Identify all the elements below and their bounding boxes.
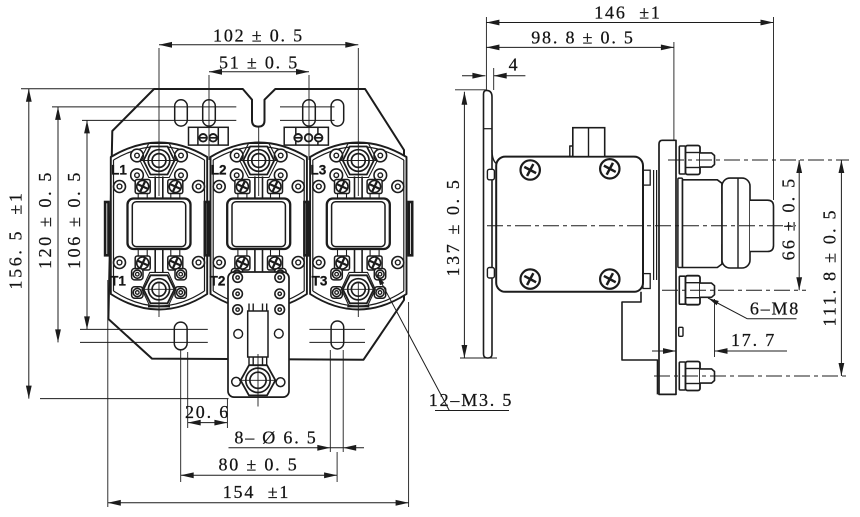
extension line y398.6 bracket bottom bbox=[40, 398, 229, 400]
top terminal block bbox=[573, 128, 605, 157]
top ext line left bbox=[455, 89, 486, 91]
bracket centre window bbox=[248, 311, 268, 357]
extension line y120.4 bbox=[82, 119, 236, 121]
front plate (side) bbox=[659, 140, 676, 394]
body right steps bbox=[643, 170, 650, 185]
pole module at x=358.3 bbox=[310, 143, 406, 310]
svg-text:106 ± 0. 5: 106 ± 0. 5 bbox=[64, 170, 84, 269]
bottom oval slot left bbox=[174, 322, 187, 350]
svg-text:T2: T2 bbox=[210, 274, 226, 289]
dim 8-dia6.5 bbox=[329, 350, 331, 452]
leader 12-M3.5 bbox=[377, 275, 449, 411]
bottom oval slot right bbox=[331, 321, 344, 349]
svg-text:156. 5 ±1: 156. 5 ±1 bbox=[6, 191, 26, 290]
svg-text:L2: L2 bbox=[211, 163, 227, 178]
svg-text:4: 4 bbox=[509, 55, 520, 75]
small tab on plate right face bbox=[679, 327, 683, 336]
svg-text:111. 8 ± 0. 5: 111. 8 ± 0. 5 bbox=[820, 208, 840, 326]
main centreline bbox=[487, 225, 796, 227]
dim 66 +-0.5 bbox=[798, 160, 800, 290]
dim 120 +-0.5 bbox=[57, 107, 59, 343]
svg-text:154 ±1: 154 ±1 bbox=[223, 482, 290, 502]
bolt 3 bbox=[679, 362, 685, 390]
strip between body and plate bbox=[653, 170, 655, 280]
arc chamber bbox=[683, 180, 723, 268]
cap ring bbox=[722, 178, 750, 268]
svg-text:L1: L1 bbox=[111, 163, 127, 178]
bolt centrelines bbox=[668, 159, 849, 161]
side: mounting bracket plate bbox=[484, 90, 493, 358]
svg-text:80 ± 0. 5: 80 ± 0. 5 bbox=[218, 455, 298, 475]
svg-text:T1: T1 bbox=[110, 274, 126, 289]
svg-text:L3: L3 bbox=[311, 163, 327, 178]
bracket bottom terminal bbox=[232, 377, 241, 386]
extension line y329.4 bbox=[80, 328, 208, 330]
dim 156.5 +-1 (left) bbox=[21, 88, 155, 90]
svg-text:12–M3. 5: 12–M3. 5 bbox=[429, 390, 513, 410]
svg-text:137 ± 0. 5: 137 ± 0. 5 bbox=[443, 178, 463, 277]
dim 111.8 +-0.5 bbox=[840, 160, 842, 376]
svg-text:120 ± 0. 5: 120 ± 0. 5 bbox=[35, 170, 55, 269]
svg-text:8– Ø 6. 5: 8– Ø 6. 5 bbox=[234, 428, 317, 448]
top tab bracket between poles 1-2 bbox=[189, 127, 229, 145]
dim 154 +-1 bbox=[107, 280, 109, 507]
left clips bbox=[487, 169, 494, 180]
svg-text:T3: T3 bbox=[312, 274, 328, 289]
dim 51 +-0.5 bbox=[208, 75, 210, 160]
side: main body bbox=[496, 157, 643, 292]
pole 2 centre line bbox=[258, 127, 260, 147]
svg-text:102 ± 0. 5: 102 ± 0. 5 bbox=[213, 26, 304, 46]
dim 17.7 bbox=[714, 299, 716, 357]
dim 102 +-0.5 bbox=[158, 48, 160, 147]
centre auxiliary bracket bbox=[228, 272, 289, 397]
dim 98.8 +-0.5 bbox=[673, 42, 675, 140]
dim 106 +-0.5 bbox=[86, 120, 88, 329]
lower sub-block bbox=[622, 292, 658, 395]
arc chamber flange bbox=[678, 178, 683, 267]
bracket holes bbox=[234, 330, 243, 339]
dim 80 +-0.5 bbox=[180, 350, 182, 482]
leader 6-M8 bbox=[708, 298, 747, 319]
pole module at x=258.7 bbox=[211, 143, 307, 310]
top tab bracket between poles 2-3 bbox=[284, 127, 328, 145]
svg-text:6–M8: 6–M8 bbox=[750, 299, 800, 319]
bracket screws bbox=[233, 273, 243, 283]
dim 137 +-0.5 bbox=[460, 357, 497, 359]
svg-text:146 ±1: 146 ±1 bbox=[594, 3, 661, 23]
svg-text:98. 8 ± 0. 5: 98. 8 ± 0. 5 bbox=[531, 28, 634, 48]
dim 146 +-1 bbox=[485, 17, 487, 90]
svg-text:17. 7: 17. 7 bbox=[731, 330, 776, 350]
button bbox=[750, 200, 774, 251]
extension line y342.4 bbox=[80, 341, 208, 343]
svg-text:51 ± 0. 5: 51 ± 0. 5 bbox=[219, 53, 299, 73]
dim 4 bbox=[493, 68, 495, 90]
mounting plate outline (front view) bbox=[108, 89, 404, 360]
extension line y106.9 bbox=[52, 106, 236, 108]
M8 bolts bbox=[679, 146, 685, 174]
svg-text:20. 6: 20. 6 bbox=[185, 402, 230, 422]
dim 20.6 bbox=[187, 352, 189, 428]
top oval slots bbox=[175, 100, 188, 126]
svg-text:66 ± 0. 5: 66 ± 0. 5 bbox=[779, 177, 799, 261]
phillips screws bbox=[521, 160, 540, 179]
bolt 2 bbox=[679, 276, 685, 304]
pole module at x=159 bbox=[111, 143, 207, 310]
